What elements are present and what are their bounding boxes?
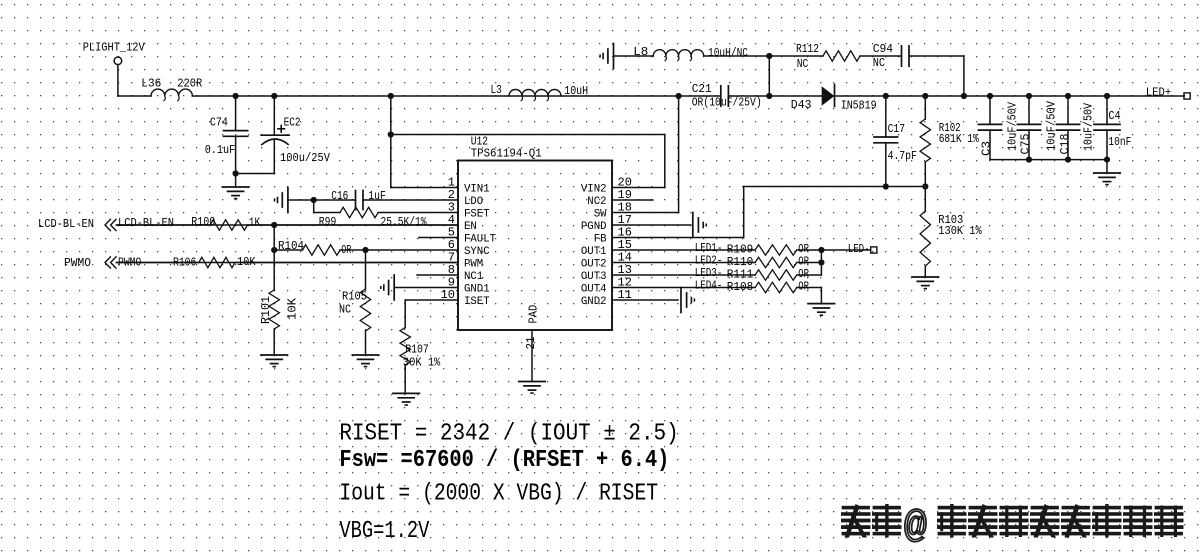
svg-text:10uF/50V: 10uF/50V (1006, 101, 1020, 151)
svg-text:25.5K/1%: 25.5K/1% (381, 215, 428, 229)
svg-text:L8: L8 (633, 45, 648, 59)
svg-text:VBG=1.2V: VBG=1.2V (339, 518, 429, 545)
svg-text:L3: L3 (491, 83, 502, 97)
svg-text:R105: R105 (342, 290, 367, 304)
svg-text:C75: C75 (1019, 134, 1033, 155)
svg-text:LED-: LED- (848, 242, 870, 256)
svg-text:10uF/50V: 10uF/50V (1082, 102, 1096, 151)
svg-text:C16: C16 (331, 189, 348, 203)
svg-text:10nF: 10nF (1108, 135, 1131, 149)
svg-text:11: 11 (618, 288, 632, 302)
svg-text:100u/25V: 100u/25V (280, 151, 331, 165)
svg-text:RISET = 2342 / (IOUT ± 2.5): RISET = 2342 / (IOUT ± 2.5) (339, 421, 678, 448)
svg-text:LCD-BL-EN: LCD-BL-EN (38, 217, 94, 231)
svg-text:SW: SW (594, 209, 607, 221)
svg-text:NC2: NC2 (587, 196, 606, 208)
svg-text:4.7pF: 4.7pF (888, 149, 917, 163)
svg-text:R106: R106 (173, 256, 196, 270)
svg-text:VIN1: VIN1 (464, 184, 490, 196)
svg-text:R108: R108 (727, 280, 754, 294)
svg-text:IN5819: IN5819 (841, 99, 877, 113)
svg-text:C21: C21 (692, 82, 712, 96)
svg-text:NC: NC (339, 303, 351, 317)
svg-text:PLIGHT_12V: PLIGHT_12V (83, 41, 146, 55)
svg-text:NC: NC (873, 56, 885, 70)
svg-text:OUT2: OUT2 (581, 259, 607, 271)
svg-text:OUT3: OUT3 (581, 271, 607, 283)
svg-text:FAULT: FAULT (464, 234, 496, 246)
svg-text:10uH: 10uH (564, 84, 588, 98)
svg-text:C74: C74 (210, 115, 228, 129)
svg-text:LED4-: LED4- (695, 278, 723, 292)
svg-text:C3: C3 (980, 141, 994, 156)
svg-text:SYNC: SYNC (464, 246, 490, 258)
svg-text:10: 10 (441, 288, 455, 302)
svg-text:10uF/50V: 10uF/50V (1045, 100, 1059, 151)
svg-text:OUT1: OUT1 (581, 246, 607, 258)
svg-text:NC1: NC1 (464, 271, 484, 283)
svg-text:LDO: LDO (464, 196, 484, 208)
svg-text:C94: C94 (873, 42, 893, 56)
svg-text:PWM: PWM (464, 259, 483, 271)
svg-text:FSET: FSET (464, 209, 490, 221)
svg-text:220R: 220R (177, 77, 202, 91)
svg-text:OR(10uF/25V): OR(10uF/25V) (692, 96, 762, 110)
svg-text:10K: 10K (286, 297, 300, 320)
svg-text:C4: C4 (1108, 109, 1120, 123)
svg-text:R104: R104 (278, 239, 304, 253)
svg-text:GND2: GND2 (581, 296, 607, 308)
svg-text:PGND: PGND (581, 221, 607, 233)
svg-text:OR: OR (341, 243, 351, 257)
svg-text:R99: R99 (319, 215, 337, 229)
svg-text:OUT4: OUT4 (581, 284, 607, 296)
svg-text:EN: EN (464, 221, 477, 233)
svg-text:1K: 1K (249, 216, 261, 230)
svg-text:R100: R100 (191, 215, 215, 229)
svg-text:130K 1%: 130K 1% (938, 224, 982, 238)
svg-text:EC2: EC2 (284, 116, 301, 130)
svg-text:30K 1%: 30K 1% (403, 356, 441, 370)
svg-text:@: @ (904, 506, 927, 549)
svg-text:TPS61194-Q1: TPS61194-Q1 (471, 147, 542, 161)
svg-text:C18: C18 (1058, 134, 1072, 155)
svg-text:Fsw= =67600 / (RFSET + 6.4): Fsw= =67600 / (RFSET + 6.4) (339, 447, 669, 474)
svg-text:R112: R112 (796, 42, 819, 56)
svg-text:D43: D43 (791, 98, 812, 112)
svg-text:10K: 10K (237, 255, 256, 269)
svg-text:NC: NC (797, 57, 809, 71)
svg-text:ISET: ISET (464, 296, 490, 308)
svg-text:PWMO: PWMO (118, 256, 141, 270)
svg-text:L36: L36 (141, 77, 161, 91)
svg-text:GND1: GND1 (464, 284, 490, 296)
svg-text:1uF: 1uF (368, 189, 386, 203)
svg-text:R101: R101 (259, 296, 273, 324)
svg-text:PAD: PAD (527, 305, 541, 324)
svg-text:21: 21 (524, 337, 538, 350)
svg-text:LCD-BL-EN: LCD-BL-EN (118, 216, 174, 230)
svg-text:VIN2: VIN2 (581, 184, 607, 196)
svg-text:10uH/NC: 10uH/NC (708, 46, 748, 60)
svg-text:OR: OR (798, 280, 809, 294)
svg-text:0.1uF: 0.1uF (205, 143, 236, 157)
svg-text:LED+: LED+ (1146, 86, 1171, 100)
svg-text:R107: R107 (405, 343, 429, 357)
svg-text:C17: C17 (888, 122, 905, 136)
svg-text:FB: FB (594, 234, 607, 246)
svg-text:Iout = (2000 X VBG) / RISET: Iout = (2000 X VBG) / RISET (339, 481, 658, 508)
svg-text:681K 1%: 681K 1% (939, 132, 980, 146)
svg-text:PWMO: PWMO (64, 256, 91, 270)
